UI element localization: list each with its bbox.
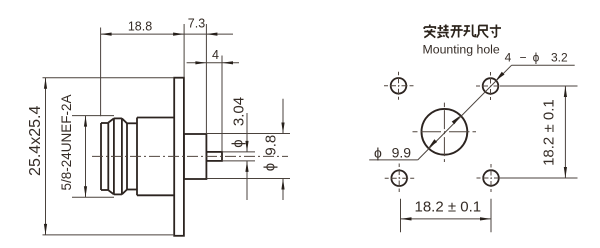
pin: [206, 152, 222, 161]
thread chamfer top-left: [108, 118, 114, 122]
leader shoulder phi9.9: [369, 159, 418, 161]
dim line 4: [187, 62, 239, 64]
svg-text:4: 4: [505, 50, 512, 64]
crosshair center circle horizontal: [413, 131, 477, 133]
front cylinder bottom: [101, 189, 108, 191]
svg-text:18.2 ± 0.1: 18.2 ± 0.1: [540, 99, 557, 166]
thread crest thin line bottom: [72, 196, 114, 198]
arrow 7.3 outside right: [206, 33, 217, 36]
mounting hole circle BL: [391, 170, 407, 186]
svg-text:ϕ: ϕ: [374, 145, 382, 161]
svg-text:5/8-24UNEF-2A: 5/8-24UNEF-2A: [59, 94, 74, 190]
arrow 18.2 right down: [564, 167, 567, 178]
ext line 18.2 bottom right: [490, 199, 492, 233]
thread chamfer bottom-right: [122, 190, 127, 195]
svg-text:Mounting hole: Mounting hole: [423, 43, 500, 57]
mid body front face: [136, 118, 138, 196]
arrow 25.4 top: [44, 78, 47, 89]
arrow thread dim down: [84, 186, 87, 197]
thread chamfer bottom-left: [108, 190, 114, 194]
ext line pin bottom: [222, 160, 255, 162]
dim line 18.8 / 7.3: [101, 33, 233, 35]
thread flat top: [114, 117, 122, 119]
crosshair TL: [384, 85, 414, 87]
arrow 18.2 bottom right: [480, 217, 491, 220]
rear body: [184, 134, 207, 179]
thread crest edge right: [121, 118, 123, 194]
dim line phi3.04 lower: [246, 161, 248, 200]
arrow phi9.9 lower-left: [428, 139, 437, 148]
front cylinder top: [101, 122, 108, 124]
char zhuang: [437, 25, 449, 38]
svg-text:3.04: 3.04: [231, 97, 248, 126]
ext line pin tip: [221, 56, 223, 152]
char cun: [490, 25, 501, 38]
svg-text:7.3: 7.3: [188, 17, 205, 31]
front cylinder rear edge: [107, 123, 109, 191]
char chi: [477, 26, 489, 38]
svg-text:ϕ: ϕ: [262, 163, 279, 171]
char kong: [464, 25, 476, 37]
ext line 18.2 right bottom: [500, 177, 578, 179]
mounting hole circle TL: [391, 78, 407, 94]
crosshair TR: [476, 85, 506, 87]
arrow 18.8/7.3 right at flange: [173, 33, 184, 36]
connector body outline: [101, 78, 222, 236]
undercut front edge: [126, 123, 128, 189]
dim line 25.4: [45, 78, 47, 235]
chinese title: an zhuang kai kong chi cun (hand strokes): [424, 25, 501, 38]
ext line 18.2 bottom left: [400, 199, 402, 233]
arrow phi3.04 up: [245, 161, 248, 172]
arrowheads right drawing: [401, 72, 568, 221]
arrow phi9.9 upper-right: [452, 116, 461, 125]
crosshair BR: [477, 177, 507, 179]
ext line rear body top: [206, 133, 290, 135]
svg-text:18.2 ± 0.1: 18.2 ± 0.1: [414, 199, 481, 216]
ext line 18.8 left: [100, 28, 102, 117]
dim line 18.2 right: [564, 86, 566, 178]
ext line 18.2 right top: [500, 85, 578, 87]
arrow phi3.04 down: [245, 141, 248, 152]
arrow phi9.8 up: [281, 179, 284, 190]
arrow on small hole: [496, 72, 505, 81]
crosshair BL: [385, 177, 415, 179]
arrow 18.2 bottom left: [401, 217, 412, 220]
char an: [424, 25, 435, 38]
ext line body rear (7.3 right): [205, 24, 207, 134]
undercut bottom: [127, 189, 137, 191]
dimension texts left drawing: [27, 17, 280, 191]
flange: [174, 78, 184, 236]
thread crest edge left: [113, 118, 115, 194]
svg-text:4: 4: [212, 48, 219, 62]
thread flat bottom: [114, 193, 122, 195]
ext line pin top: [222, 151, 255, 153]
ext line rear body bottom: [206, 178, 290, 180]
arrow 18.8 left: [101, 33, 112, 36]
leader shoulder 4-phi3.2: [512, 64, 575, 66]
dim line phi3.04 upper: [246, 113, 248, 152]
crosshair center circle vertical: [443, 103, 445, 162]
front face: [100, 123, 102, 190]
centerline: [92, 155, 288, 157]
ext line flange rear (7.3 left): [183, 24, 185, 78]
arrow 18.2 right up: [564, 86, 567, 97]
dim line phi9.8 lower: [282, 179, 284, 201]
svg-text:9.9: 9.9: [392, 145, 412, 161]
crosshairs: [384, 72, 506, 192]
undercut top: [127, 122, 137, 124]
svg-text:18.8: 18.8: [128, 20, 152, 34]
arrow 4 outside right: [222, 61, 233, 64]
arrow phi9.8 down: [281, 123, 284, 134]
ext line flange bottom: [43, 234, 175, 236]
svg-text:3.2: 3.2: [551, 50, 568, 64]
arrowheads left drawing: [44, 33, 285, 235]
mounting hole circle BR: [483, 170, 499, 186]
svg-text:ϕ: ϕ: [533, 50, 540, 64]
thread chamfer top-right: [122, 118, 127, 123]
mid body top: [137, 117, 174, 119]
label 4 - phi 3.2: [505, 50, 568, 64]
center circle phi9.9: [422, 109, 468, 155]
svg-text:ϕ: ϕ: [230, 139, 247, 147]
char kai: [451, 26, 463, 38]
mid body bottom: [137, 194, 174, 196]
arrow 25.4 bottom: [44, 224, 47, 235]
texts right drawing: [374, 43, 568, 216]
mounting hole circle TR: [483, 78, 499, 94]
ext line flange top: [43, 77, 175, 79]
leader diagonal: [418, 65, 512, 160]
arrow thread dim up: [84, 116, 87, 127]
svg-text:25.4x25.4: 25.4x25.4: [27, 106, 44, 176]
thread dimension line: [85, 116, 87, 198]
thread crest thin line top: [72, 115, 114, 117]
dim line phi9.8 upper: [282, 99, 284, 134]
svg-text:−: −: [520, 50, 527, 64]
arrow 4 outside left: [195, 61, 206, 64]
svg-text:9.8: 9.8: [263, 135, 280, 156]
dim line 18.2 bottom: [401, 218, 492, 220]
